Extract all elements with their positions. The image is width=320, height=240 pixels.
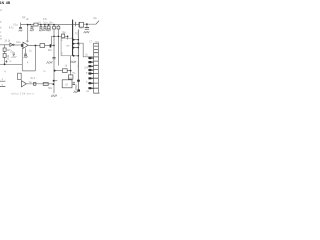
svg-text:10u: 10u: [49, 21, 54, 24]
svg-text:SA: SA: [93, 17, 97, 20]
svg-text:--: --: [60, 97, 62, 100]
svg-text:+18V: +18V: [11, 56, 17, 59]
svg-text:m: m: [0, 37, 2, 40]
svg-text:Vo 4: Vo 4: [30, 77, 35, 80]
svg-text:4B: 4B: [6, 1, 11, 5]
svg-text:10 1k: 10 1k: [4, 40, 11, 43]
svg-text:7H: 7H: [66, 45, 69, 48]
svg-text:0.1u: 0.1u: [43, 21, 48, 24]
svg-text:C: C: [61, 38, 63, 41]
svg-text:2k2: 2k2: [48, 49, 53, 52]
svg-text:0.1u: 0.1u: [13, 23, 18, 26]
svg-text:m: m: [0, 9, 2, 12]
svg-text:TC: TC: [72, 72, 75, 75]
svg-text:180: 180: [79, 27, 84, 30]
svg-text:m: m: [9, 60, 11, 63]
svg-text:1N: 1N: [0, 1, 5, 5]
svg-text:m: m: [43, 70, 45, 73]
svg-text:DA: DA: [96, 41, 100, 44]
svg-text:TC: TC: [75, 33, 78, 36]
svg-text:tplso.10k.me.o: tplso.10k.me.o: [11, 92, 34, 96]
svg-text:10u: 10u: [16, 41, 21, 44]
svg-text:8.7u: 8.7u: [9, 27, 14, 30]
svg-text:706: 706: [62, 32, 67, 35]
svg-text:104: 104: [84, 67, 89, 70]
